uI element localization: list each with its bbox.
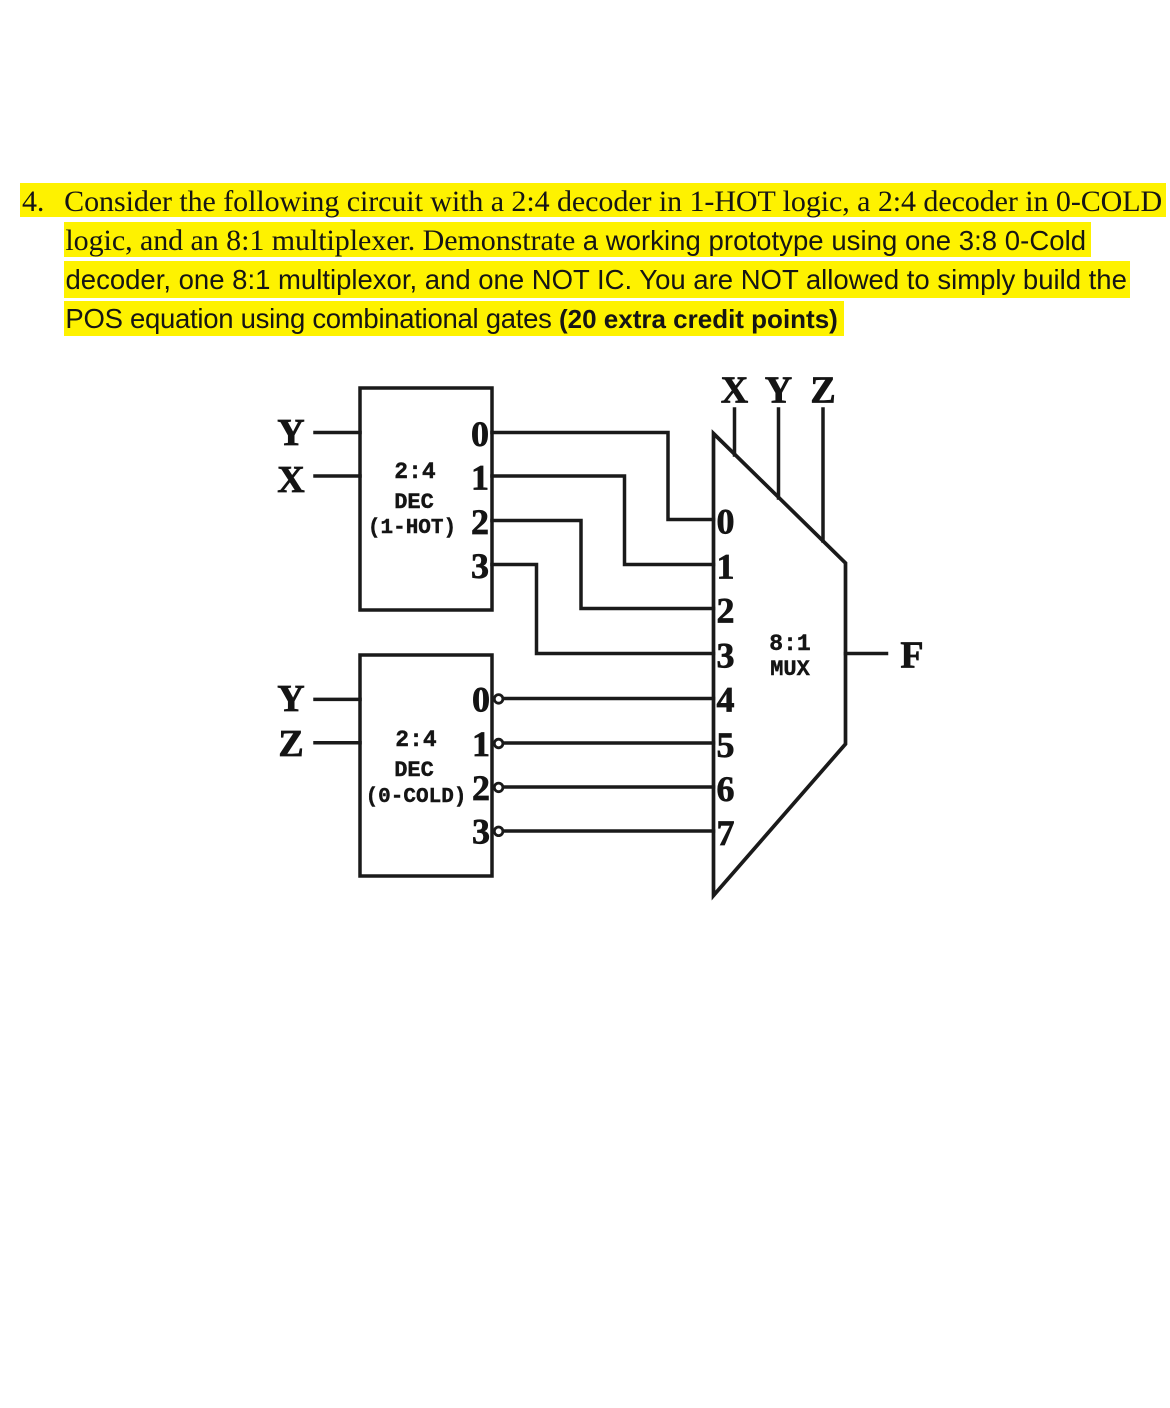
MUX input label 1 — [717, 546, 735, 586]
svg-text:3: 3 — [472, 812, 490, 852]
svg-text:2:4: 2:4 — [394, 459, 436, 485]
svg-text:4: 4 — [717, 679, 735, 719]
svg-text:Y: Y — [277, 412, 304, 454]
U2 pin label 0 — [472, 679, 490, 719]
input label Y (U1) — [277, 412, 304, 454]
svg-text:6: 6 — [717, 769, 735, 809]
U2 label "2:4" — [395, 727, 437, 753]
svg-text:MUX: MUX — [770, 657, 810, 682]
U3 label "8:1" — [769, 631, 810, 657]
wire U2 pin2 to MUX input 6 — [505, 785, 714, 789]
U1 label "2:4" — [394, 459, 436, 485]
problem statement paragraph, line 3 — [64, 261, 1130, 298]
svg-text:1: 1 — [717, 546, 735, 586]
input label X (U1) — [277, 459, 304, 501]
MUX input label 0 — [717, 501, 735, 541]
U2 pin0 inversion bubble — [494, 695, 503, 704]
wire U1 pin0 to MUX input 0 — [492, 433, 714, 520]
MUX input label 4 — [717, 679, 735, 719]
select wire Y into U3 — [777, 409, 781, 498]
problem statement paragraph, line 4 — [64, 301, 845, 336]
MUX input label 3 — [717, 635, 735, 675]
wire input Z to U2 — [315, 741, 360, 745]
wire U1 pin3 to MUX input 3 — [492, 565, 714, 654]
MUX input label 6 — [717, 769, 735, 809]
svg-text:Z: Z — [278, 723, 303, 765]
U2 pin1 inversion bubble — [494, 739, 503, 748]
output wire F — [846, 652, 887, 656]
svg-text:5: 5 — [717, 725, 735, 765]
U2 pin2 inversion bubble — [494, 783, 503, 792]
svg-text:Y: Y — [277, 678, 304, 720]
wire U1 pin1 to MUX input 1 — [492, 476, 714, 565]
U1 pin label 3 — [471, 546, 489, 586]
U2 pin3 inversion bubble — [494, 827, 503, 836]
U2 pin label 2 — [472, 768, 490, 808]
problem statement paragraph, line 2 — [64, 222, 1091, 257]
select label Z — [810, 369, 835, 411]
svg-text:2: 2 — [472, 768, 490, 808]
MUX input label 7 — [717, 813, 735, 853]
svg-text:2:4: 2:4 — [395, 727, 437, 753]
wire input Y to U1 — [315, 431, 360, 435]
svg-text:X: X — [277, 459, 304, 501]
U2 label "(0-COLD)" — [366, 786, 467, 809]
svg-text:(0-COLD): (0-COLD) — [366, 786, 467, 809]
output label F — [900, 634, 923, 676]
select label Y — [765, 369, 792, 411]
svg-text:8:1: 8:1 — [769, 631, 810, 657]
svg-text:Z: Z — [810, 369, 835, 411]
svg-text:2: 2 — [717, 590, 735, 630]
svg-text:F: F — [900, 634, 923, 676]
svg-text:3: 3 — [471, 546, 489, 586]
wire U2 pin1 to MUX input 5 — [505, 741, 714, 745]
select wire X into U3 — [733, 409, 737, 455]
U1 pin label 1 — [471, 457, 489, 497]
wire U2 pin0 to MUX input 4 — [505, 697, 714, 701]
U2 pin label 3 — [472, 812, 490, 852]
MUX input label 5 — [717, 725, 735, 765]
multiplexer U3 body (8:1 MUX trapezoid) — [714, 434, 846, 896]
MUX input label 2 — [717, 590, 735, 630]
svg-text:Y: Y — [765, 369, 792, 411]
svg-text:3: 3 — [717, 635, 735, 675]
svg-text:0: 0 — [472, 679, 490, 719]
svg-text:2: 2 — [471, 502, 489, 542]
svg-text:DEC: DEC — [394, 758, 434, 783]
U1 pin label 0 — [471, 414, 489, 454]
svg-text:7: 7 — [717, 813, 735, 853]
U1 pin label 2 — [471, 502, 489, 542]
svg-text:X: X — [721, 369, 748, 411]
U3 label "MUX" — [770, 657, 810, 682]
U2 label "DEC" — [394, 758, 434, 783]
svg-text:1: 1 — [471, 457, 489, 497]
svg-text:1: 1 — [472, 724, 490, 764]
svg-text:0: 0 — [717, 501, 735, 541]
decoder U1 box (2:4 DEC 1-HOT) — [360, 388, 492, 610]
wire input X to U1 — [315, 474, 360, 478]
wire U1 pin2 to MUX input 2 — [492, 521, 714, 609]
U2 pin label 1 — [472, 724, 490, 764]
U1 label "DEC" — [394, 490, 434, 515]
wire U2 pin3 to MUX input 7 — [505, 829, 714, 833]
select wire Z into U3 — [821, 409, 825, 541]
wire input Y to U2 — [315, 698, 360, 702]
problem statement paragraph, line 1 — [20, 183, 1166, 217]
svg-text:DEC: DEC — [394, 490, 434, 515]
svg-text:(1-HOT): (1-HOT) — [368, 517, 456, 540]
svg-text:0: 0 — [471, 414, 489, 454]
input label Z (U2) — [278, 723, 303, 765]
U1 label "(1-HOT)" — [368, 517, 456, 540]
input label Y (U2) — [277, 678, 304, 720]
select label X — [721, 369, 748, 411]
decoder U2 box (2:4 DEC 0-COLD) — [360, 655, 492, 876]
